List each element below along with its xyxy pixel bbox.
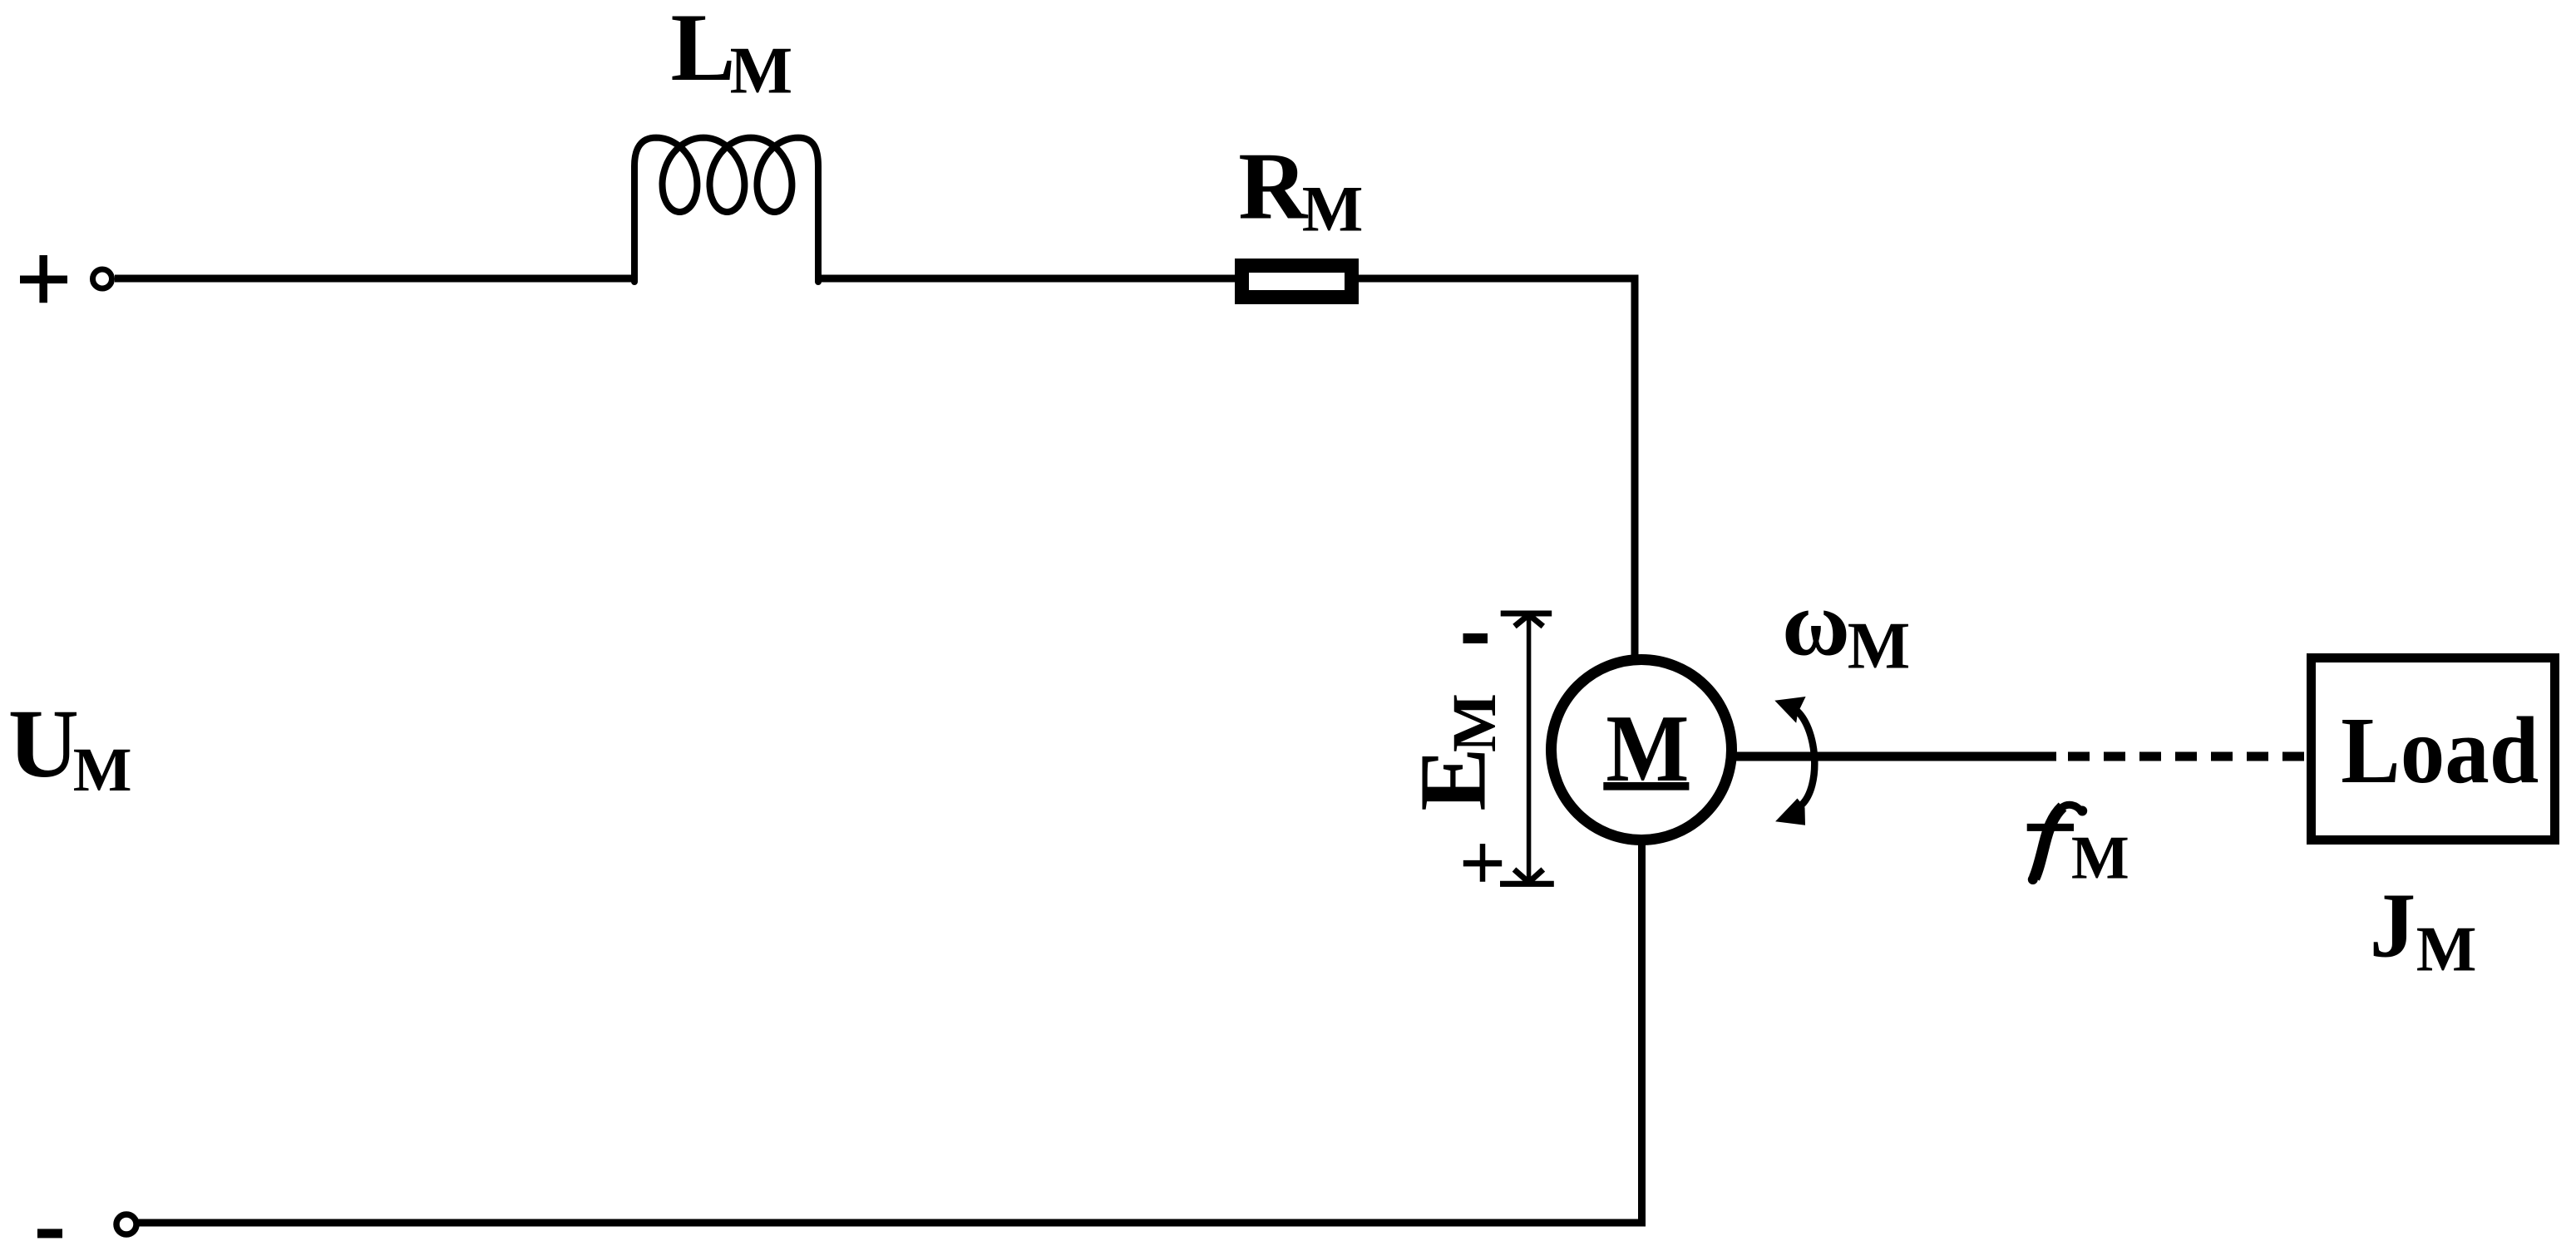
svg-text:R: R <box>1238 134 1309 239</box>
svg-text:M: M <box>1302 173 1364 245</box>
label E_M (rotated) <box>1400 693 1510 810</box>
load box <box>2312 658 2555 840</box>
EMF dimension arrow E_M <box>1500 613 1554 884</box>
minus polarity (E_M top) <box>1463 633 1488 643</box>
wire from resistor to motor (top right corner) <box>1359 278 1635 658</box>
svg-text:U: U <box>8 689 79 798</box>
terminal - (negative input node) <box>116 1214 136 1234</box>
label U_M <box>8 689 132 805</box>
terminal + (positive input node) <box>93 269 112 288</box>
label f_M <box>2027 805 2129 892</box>
wire from motor bottom to - terminal <box>138 843 1642 1223</box>
motor M circle <box>1552 660 1732 840</box>
label J_M <box>2370 874 2477 984</box>
svg-text:M: M <box>730 34 793 107</box>
plus sign (supply +) <box>20 255 67 303</box>
label R_M <box>1238 134 1363 245</box>
svg-text:ω: ω <box>1782 573 1850 676</box>
minus sign (supply -) <box>37 1229 62 1238</box>
svg-text:M: M <box>73 736 132 805</box>
svg-text:M: M <box>2416 913 2477 984</box>
svg-text:Load: Load <box>2341 697 2539 803</box>
svg-text:E: E <box>1400 747 1506 810</box>
svg-text:M: M <box>1440 693 1509 752</box>
svg-text:M: M <box>1848 610 1911 683</box>
motor shaft (solid) <box>1734 752 2056 761</box>
resistor R_M <box>1242 266 1352 298</box>
motor shaft (dashed) <box>2068 752 2307 761</box>
plus polarity (E_M bottom) <box>1463 844 1502 882</box>
svg-text:J: J <box>2370 874 2416 977</box>
label M (motor) <box>1603 696 1689 801</box>
label omega_M <box>1782 573 1910 683</box>
rotation arrow (curved) <box>1774 697 1814 825</box>
svg-text:M: M <box>2071 825 2129 893</box>
svg-text:L: L <box>671 0 736 101</box>
label L_M <box>671 0 793 107</box>
inductor L_M <box>634 138 818 282</box>
wire from inductor to resistor <box>818 275 1235 283</box>
wire from + terminal to inductor <box>115 275 634 283</box>
